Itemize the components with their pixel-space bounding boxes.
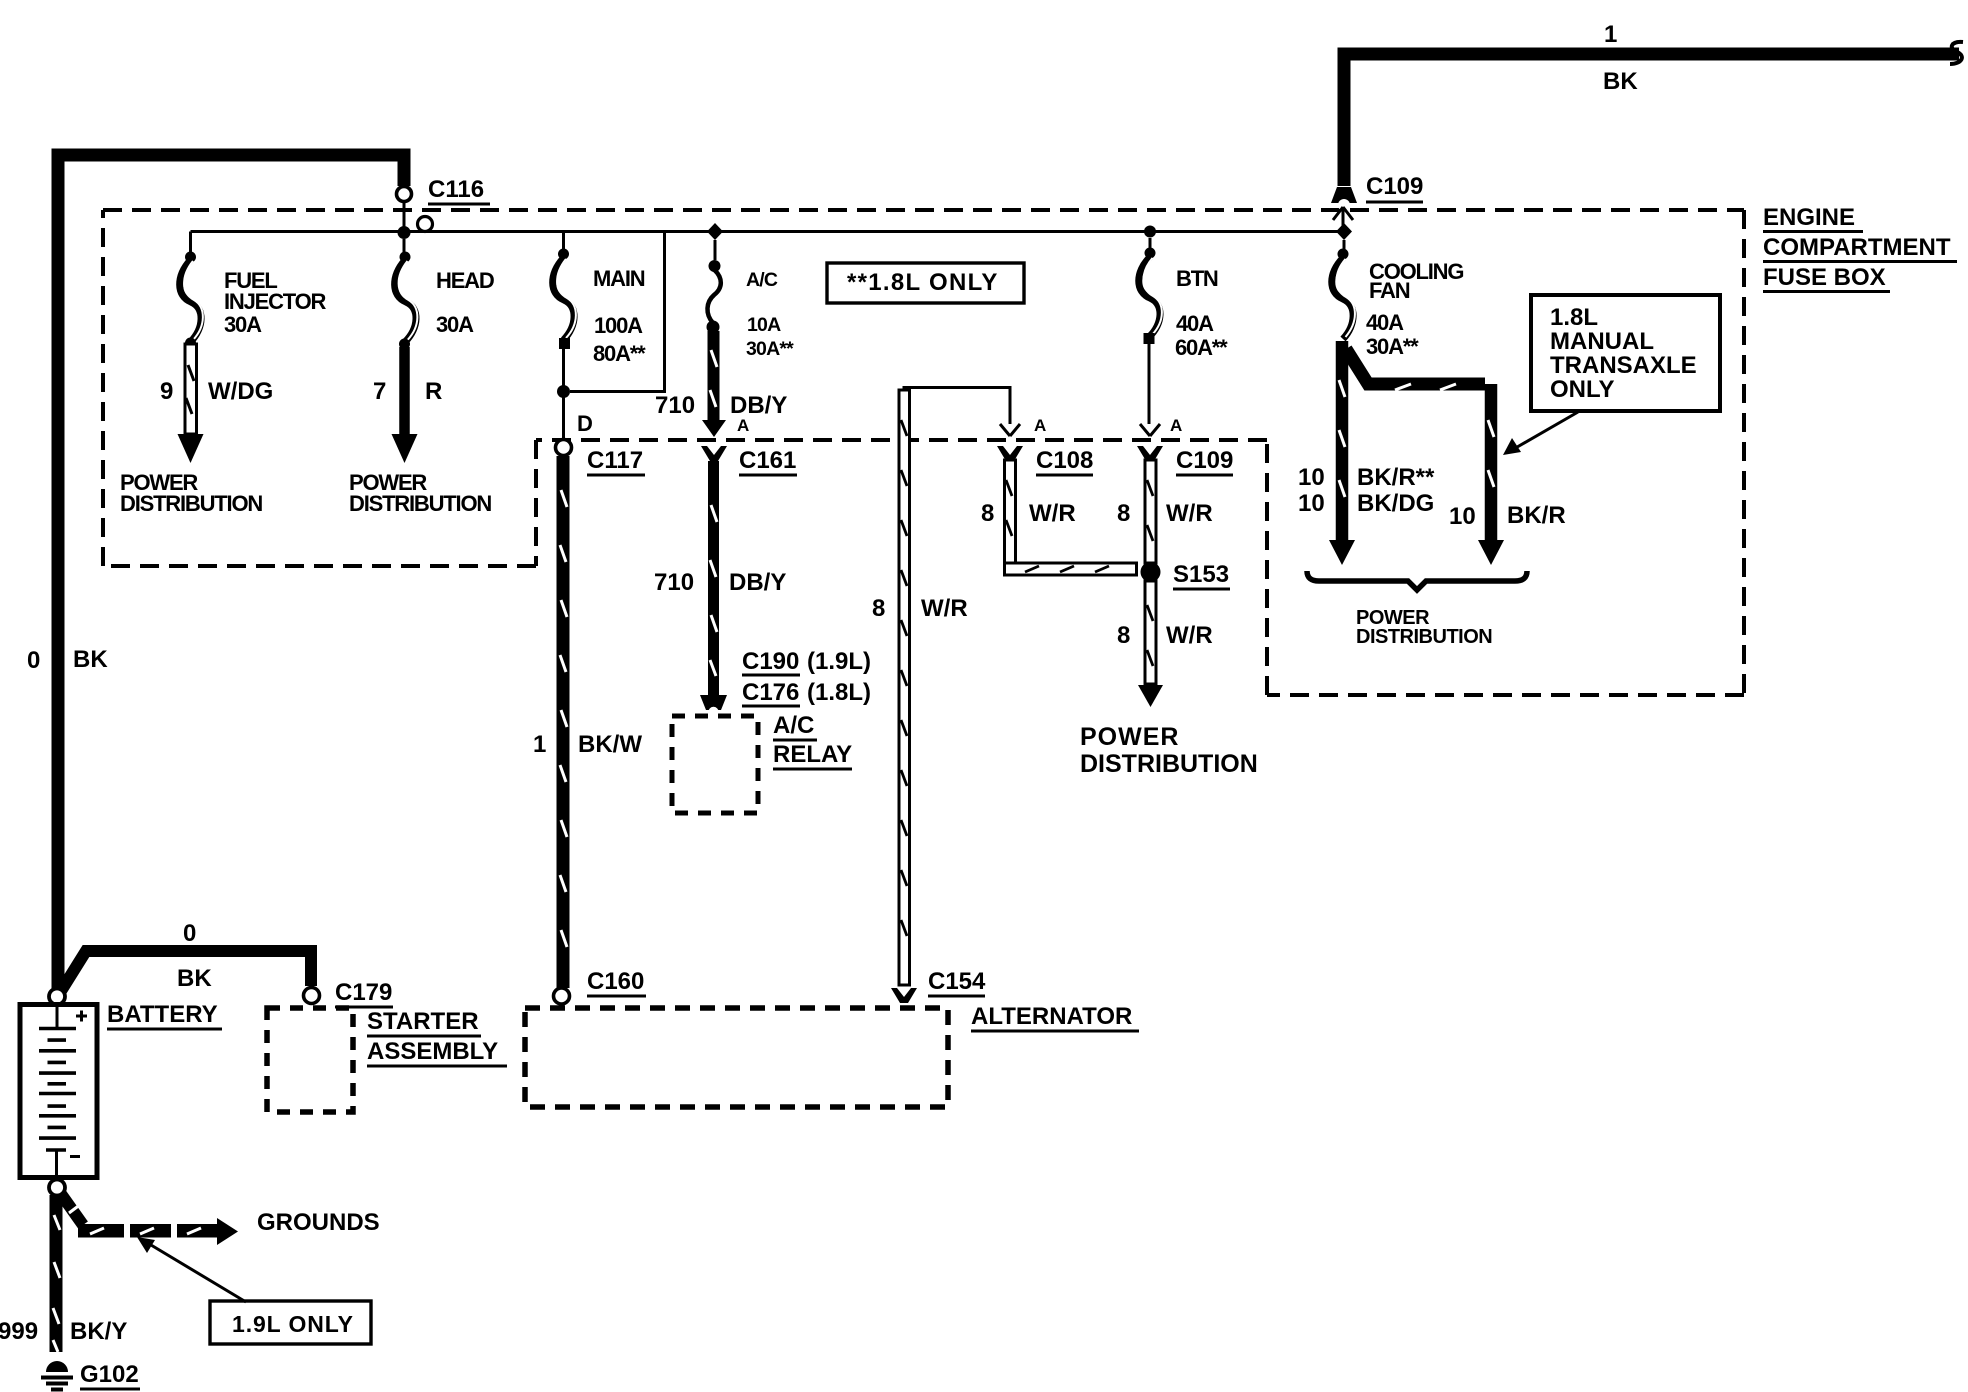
svg-text:8: 8: [981, 500, 994, 527]
starter assembly dashed box: [267, 1008, 353, 1112]
svg-text:8: 8: [1117, 500, 1130, 527]
node BTN bus: [1144, 226, 1156, 238]
wire 8 W/R from C109 striped down through S153: [1117, 460, 1213, 563]
svg-text:BK/W: BK/W: [578, 731, 642, 758]
continuation squiggle S at right end: [1950, 42, 1963, 64]
svg-text:C109: C109: [1366, 173, 1423, 200]
svg-text:C179: C179: [335, 979, 392, 1006]
wire grounds striped dashed with arrow: [61, 1194, 380, 1245]
svg-text:S153: S153: [1173, 561, 1229, 588]
svg-text:8: 8: [1117, 622, 1130, 649]
svg-text:W/R: W/R: [921, 595, 968, 622]
svg-text:100A: 100A: [594, 313, 643, 338]
svg-text:MANUAL: MANUAL: [1550, 328, 1654, 355]
fuse FUEL INJECTOR 30A: [180, 232, 327, 349]
wire 80A alternate loop: [570, 232, 665, 392]
svg-text:C109: C109: [1176, 447, 1233, 474]
fuse MAIN 100A / 80A**: [553, 232, 646, 367]
wire C116 to bus: [403, 201, 406, 231]
arrow from 1.9L box to grounds wire: [137, 1237, 246, 1302]
wire 8 W/R from C108 hollow striped L to S153: [981, 460, 1137, 575]
connector C116 circle: [397, 187, 412, 202]
wire 1 BK/W thick striped down to C160: [533, 456, 642, 988]
svg-text:10: 10: [1298, 464, 1325, 491]
wire 0 BK battery to C179 (thick): [61, 951, 311, 991]
box 1.9L ONLY: [210, 1301, 371, 1344]
battery terminal top circle: [49, 989, 65, 1005]
svg-text:TRANSAXLE: TRANSAXLE: [1550, 352, 1697, 379]
svg-text:BK/R: BK/R: [1507, 502, 1566, 529]
wire MAIN output to C117: [562, 344, 565, 440]
svg-text:10: 10: [1298, 490, 1325, 517]
svg-text:A: A: [1034, 416, 1046, 435]
svg-text:DISTRIBUTION: DISTRIBUTION: [1080, 750, 1258, 778]
svg-text:710: 710: [655, 392, 695, 419]
svg-text:BTN: BTN: [1176, 266, 1218, 291]
svg-text:1.8L: 1.8L: [1550, 304, 1598, 331]
svg-text:ONLY: ONLY: [1550, 376, 1614, 403]
svg-text:40A: 40A: [1366, 310, 1404, 335]
wire 10 BK/R right leg: diagonal, horizontal, down with arrow: [1346, 349, 1504, 565]
connector C161 female cup: [701, 446, 727, 461]
svg-text:ENGINE: ENGINE: [1763, 204, 1855, 231]
wire 9 W/DG striped hollow with arrow (fuel injector output): [120, 344, 273, 516]
wire 710 DB/Y below C161 down to A/C relay: [654, 461, 786, 697]
svg-text:GROUNDS: GROUNDS: [257, 1209, 380, 1236]
node MAIN/80A junction: [557, 385, 570, 398]
battery box: [20, 1004, 97, 1178]
svg-text:60A**: 60A**: [1175, 335, 1228, 360]
svg-text:G102: G102: [80, 1361, 139, 1388]
svg-text:(1.8L): (1.8L): [807, 679, 871, 706]
svg-text:C108: C108: [1036, 447, 1093, 474]
svg-text:80A**: 80A**: [593, 341, 646, 366]
node cooling fan bus diamond: [1336, 223, 1352, 240]
svg-text:C154: C154: [928, 968, 986, 995]
svg-text:30A: 30A: [436, 312, 474, 337]
wire 8 W/R alternator branch to C108: [904, 388, 1010, 425]
svg-text:COMPARTMENT: COMPARTMENT: [1763, 234, 1951, 261]
svg-text:R: R: [425, 378, 442, 405]
svg-text:A/C: A/C: [773, 712, 814, 739]
wire 1 BK top right (thick): [1344, 54, 1959, 186]
svg-text:**1.8L ONLY: **1.8L ONLY: [847, 269, 999, 296]
wire BTN output to C108/C109 connectors: [1148, 344, 1151, 424]
svg-text:DISTRIBUTION: DISTRIBUTION: [349, 491, 491, 516]
svg-text:C176: C176: [742, 679, 799, 706]
connector C179 circle: [304, 988, 320, 1004]
svg-text:FAN: FAN: [1369, 278, 1410, 303]
svg-text:10A: 10A: [747, 314, 781, 336]
svg-text:BATTERY: BATTERY: [107, 1001, 218, 1028]
svg-text:1: 1: [1604, 21, 1617, 48]
svg-text:DISTRIBUTION: DISTRIBUTION: [120, 491, 262, 516]
svg-text:9: 9: [160, 378, 173, 405]
svg-text:40A: 40A: [1176, 311, 1214, 336]
connector C108 female cup: [997, 446, 1023, 461]
svg-text:ALTERNATOR: ALTERNATOR: [971, 1003, 1132, 1030]
node at C116/bus: [398, 226, 411, 239]
svg-text:C116: C116: [428, 176, 484, 203]
svg-text:RELAY: RELAY: [773, 741, 852, 768]
fuse A/C 10A / 30A** (small): [707, 240, 795, 360]
svg-text:1: 1: [533, 731, 546, 758]
wire 710 DB/Y striped with male arrow into C161: [655, 331, 787, 437]
C116 mate circle: [418, 217, 433, 232]
svg-text:7: 7: [373, 378, 386, 405]
svg-text:30A**: 30A**: [746, 338, 794, 360]
svg-text:A: A: [737, 416, 749, 435]
box **1.8L ONLY: [827, 263, 1024, 303]
svg-text:DB/Y: DB/Y: [729, 569, 786, 596]
connector C117 circle: [556, 440, 572, 456]
svg-text:30A: 30A: [224, 312, 262, 337]
engine compartment fuse box dashed outline: [103, 210, 1744, 695]
svg-text:C190: C190: [742, 648, 799, 675]
svg-text:A/C: A/C: [746, 269, 778, 291]
arrow from 1.8L box to BK/R wire: [1503, 412, 1578, 455]
svg-text:BK/Y: BK/Y: [70, 1318, 127, 1345]
svg-text:(1.9L): (1.9L): [807, 648, 871, 675]
svg-text:W/R: W/R: [1166, 622, 1213, 649]
fuse COOLING FAN 40A / 30A**: [1332, 240, 1464, 359]
wire 10 BK/R cooling fan left leg thick striped with arrow: [1329, 341, 1355, 565]
svg-text:W/R: W/R: [1029, 500, 1076, 527]
connector C190/C176 flare at relay: [700, 695, 727, 710]
node A/C bus diamond: [707, 223, 723, 240]
svg-text:ASSEMBLY: ASSEMBLY: [367, 1038, 498, 1065]
wire 999 BK/Y striped below battery: [0, 1195, 127, 1352]
wire 8 W/R hollow striped down to C154: [872, 390, 968, 985]
connector C109 inner female cup: [1137, 446, 1163, 461]
alternator dashed box: [525, 1008, 948, 1107]
svg-text:8: 8: [872, 595, 885, 622]
box 1.8L MANUAL TRANSAXLE ONLY: [1531, 295, 1720, 411]
svg-text:W/R: W/R: [1166, 500, 1213, 527]
brace under cooling fan arrows: [1307, 571, 1527, 590]
svg-text:MAIN: MAIN: [593, 266, 645, 291]
bus wire inside fuse box: [191, 230, 1345, 233]
svg-text:DB/Y: DB/Y: [730, 392, 787, 419]
label ENGINE COMPARTMENT FUSE BOX: [1763, 204, 1957, 292]
svg-text:1.9L ONLY: 1.9L ONLY: [232, 1311, 354, 1337]
fuse HEAD 30A: [395, 239, 494, 350]
svg-text:FUSE BOX: FUSE BOX: [1763, 264, 1886, 291]
svg-text:W/DG: W/DG: [208, 378, 273, 405]
svg-text:C117: C117: [587, 447, 643, 474]
svg-text:D: D: [577, 411, 592, 436]
svg-text:BK: BK: [177, 965, 212, 992]
battery terminal bottom circle: [49, 1180, 65, 1196]
svg-text:999: 999: [0, 1318, 38, 1345]
A/C relay dashed box: [672, 716, 758, 813]
wire 0 BK battery to C116 (thick): [58, 155, 404, 992]
svg-text:BK: BK: [73, 646, 108, 673]
svg-text:C161: C161: [739, 447, 796, 474]
node S153 splice: [1141, 562, 1161, 582]
svg-text:0: 0: [183, 920, 196, 947]
svg-text:710: 710: [654, 569, 694, 596]
svg-text:BK/R**: BK/R**: [1357, 464, 1435, 491]
svg-text:POWER: POWER: [1080, 723, 1179, 751]
wire 8 W/R below S153 with arrow to power distribution: [1080, 581, 1258, 778]
ground symbol G102: [41, 1361, 140, 1390]
svg-text:DISTRIBUTION: DISTRIBUTION: [1356, 626, 1492, 648]
svg-text:C160: C160: [587, 968, 644, 995]
svg-text:HEAD: HEAD: [436, 268, 494, 293]
svg-text:A: A: [1170, 416, 1182, 435]
arrow male C108: [1000, 424, 1020, 436]
svg-text:BK/DG: BK/DG: [1357, 490, 1434, 517]
fuse BTN 40A / 60A**: [1139, 238, 1228, 360]
svg-text:30A**: 30A**: [1366, 334, 1419, 359]
wire 7 R solid with arrow (head output): [349, 347, 491, 516]
connector C154 cup: [891, 988, 917, 1003]
svg-text:STARTER: STARTER: [367, 1008, 479, 1035]
connector C109 top (female cup + male arrow): [1331, 173, 1423, 229]
connector C160 circle: [554, 988, 570, 1004]
arrow male C109 inner: [1140, 424, 1160, 436]
svg-text:0: 0: [27, 647, 40, 674]
svg-text:BK: BK: [1603, 68, 1638, 95]
svg-text:INJECTOR: INJECTOR: [224, 289, 327, 314]
svg-text:10: 10: [1449, 503, 1476, 530]
